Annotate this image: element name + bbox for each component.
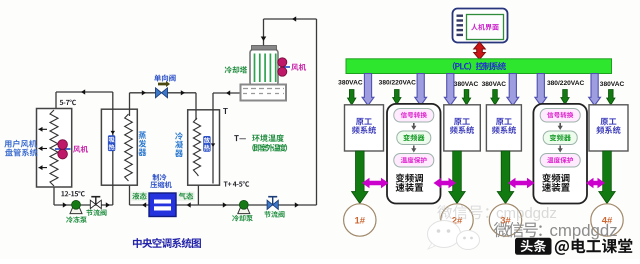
coil in evaporator [129, 93, 131, 116]
label chilled pump [66, 216, 87, 223]
box PF system 4 [589, 105, 628, 151]
svg-text:380VAC: 380VAC [482, 81, 507, 88]
label 5-7C [60, 100, 76, 105]
svg-text:380/220VAC: 380/220VAC [547, 80, 585, 87]
label fengji 2 [291, 64, 306, 71]
VFD link arrow B-left [508, 178, 535, 189]
HMI screen [467, 15, 504, 40]
green arrow c1 [348, 90, 356, 106]
wire refrigerant bottom [129, 180, 131, 205]
violet arrow c1 [362, 74, 374, 106]
label T+4-5C [224, 181, 250, 186]
wire refrigerant gas line w/ check valve [130, 92, 197, 94]
VFD link arrow A-right [434, 178, 457, 189]
label check valve [154, 75, 175, 82]
label liquid state [131, 192, 148, 202]
tower fan [283, 66, 290, 68]
tower basin [241, 85, 287, 101]
ghost watermark [437, 205, 488, 219]
fan rotor in fan-coil [55, 148, 71, 150]
title central AC system [133, 238, 201, 248]
label condenser [175, 132, 183, 140]
svg-text:380VAC: 380VAC [600, 81, 625, 88]
label 12-15C [61, 191, 84, 196]
label release heat [203, 136, 210, 152]
label HMI [471, 24, 498, 31]
green arrow c5 [561, 90, 569, 105]
green arrow c3 [462, 90, 470, 106]
svg-text:T: T [223, 107, 228, 116]
motor 1# [344, 204, 376, 236]
label evaporator [139, 131, 147, 139]
cooling pump [238, 208, 250, 214]
label cooling tower [225, 66, 247, 73]
svg-text:1#: 1# [355, 216, 366, 227]
label fengji 1 [73, 146, 88, 153]
drive arrow 1 [352, 151, 369, 204]
water line through condenser [212, 93, 214, 184]
drive arrow 3 [497, 151, 514, 204]
coil in condenser [195, 110, 197, 120]
cooling tower body [250, 50, 278, 86]
label absorb heat [108, 135, 115, 151]
watermark toutiao badge [515, 238, 552, 255]
box PF system 3 [486, 105, 521, 151]
violet arrow c4 [507, 74, 519, 106]
wechat icon [428, 221, 480, 250]
drive arrow 4 [599, 151, 616, 204]
coil in fan-coil [50, 110, 58, 186]
throttle valve 1 [90, 200, 96, 208]
check valve [156, 88, 162, 98]
throttle valve 2 [267, 200, 273, 209]
box PF system 2 [444, 105, 481, 151]
wire chilled supply top [56, 91, 113, 93]
red link arrow [474, 42, 486, 60]
compressor [149, 193, 176, 217]
motor 2# [441, 204, 473, 236]
label refrig compressor [152, 174, 166, 181]
box fan-coil unit [37, 109, 72, 188]
VFD unit B [533, 104, 587, 204]
svg-text:380VAC: 380VAC [454, 81, 479, 88]
label throttle 1 [86, 209, 106, 216]
green arrow c2 [393, 90, 401, 105]
label PLC [453, 62, 506, 70]
label cooling pump [232, 215, 253, 222]
watermark wechat id [494, 222, 542, 238]
violet arrow c2 [415, 74, 427, 106]
violet arrow c6 [589, 74, 601, 106]
airflow arrows [39, 127, 43, 132]
violet arrow c3 [444, 74, 456, 106]
box condenser [188, 110, 220, 185]
box evaporator [101, 109, 137, 185]
svg-text:cmpdgdz: cmpdgdz [496, 205, 557, 222]
PLC bar [346, 59, 612, 74]
HMI box [453, 9, 508, 43]
VFD link arrow A-left [362, 178, 389, 189]
tower fill lines [254, 54, 256, 83]
water line through evaporator [112, 92, 114, 205]
VFD unit A [387, 104, 441, 204]
HMI buttons [457, 15, 464, 17]
violet arrow c5 [535, 74, 547, 106]
green arrow c6 [607, 90, 615, 106]
svg-text:380/220VAC: 380/220VAC [379, 79, 417, 86]
wire basin to condenser [213, 92, 241, 94]
chilled pump [70, 208, 82, 214]
wire cooling water to tower [198, 204, 316, 206]
motor 4# [591, 204, 623, 236]
wire bottom chilled return [53, 187, 55, 205]
drive arrow 2 [449, 151, 466, 204]
label user fan-coil system [4, 140, 37, 148]
label throttle 2 [264, 211, 284, 218]
label T ambient note [234, 135, 246, 141]
label gas state [178, 192, 195, 202]
box PF system 1 [345, 105, 384, 151]
svg-text:380VAC: 380VAC [338, 79, 363, 86]
svg-text:cmpdgdz: cmpdgdz [550, 221, 618, 240]
VFD link arrow B-right [586, 178, 605, 189]
motor 3# [489, 204, 521, 236]
watermark account [555, 238, 632, 254]
green arrow c4 [491, 90, 499, 106]
